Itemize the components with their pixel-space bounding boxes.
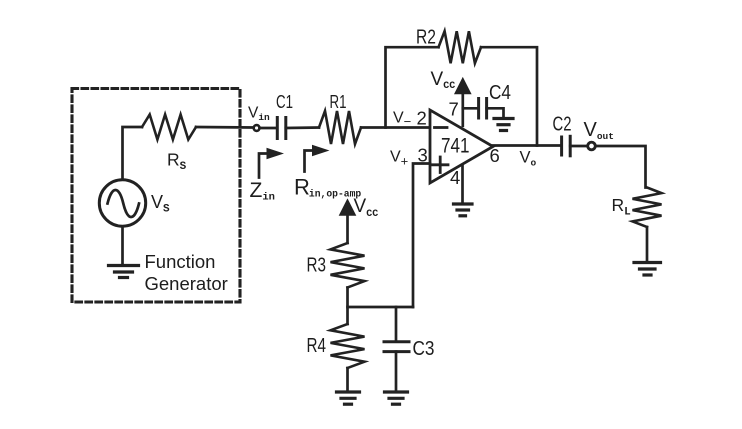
- impedance arrow Rin,op-amp: [305, 145, 330, 172]
- inverting input marker: [435, 126, 448, 129]
- wire: [463, 107, 477, 110]
- impedance arrow Zin: [259, 148, 284, 178]
- svg-text:Zin: Zin: [250, 179, 275, 204]
- svg-text:R1: R1: [330, 92, 347, 112]
- wire: [413, 164, 430, 308]
- svg-text:Vo: Vo: [520, 149, 537, 169]
- wire: [123, 127, 143, 179]
- svg-text:Generator: Generator: [145, 273, 228, 294]
- capacitor C4: [479, 99, 487, 119]
- wire: [260, 127, 277, 130]
- svg-text:Rin,op-amp: Rin,op-amp: [294, 175, 361, 200]
- wire: [386, 47, 439, 127]
- wire: [286, 126, 319, 129]
- svg-text:4: 4: [450, 167, 460, 188]
- resistor R1: [319, 111, 361, 144]
- power VCC arrow: [455, 79, 470, 94]
- pin 4 wire: [461, 165, 464, 203]
- pin 7 wire: [461, 92, 464, 126]
- resistor RL: [633, 188, 662, 228]
- wire: [481, 47, 537, 145]
- wire: [395, 352, 398, 391]
- node Vout: [588, 142, 596, 150]
- svg-text:C2: C2: [553, 114, 572, 136]
- svg-text:VCC: VCC: [431, 69, 456, 92]
- capacitor C2: [562, 136, 571, 156]
- wire: [570, 146, 645, 188]
- svg-text:R2: R2: [416, 27, 436, 49]
- ground: [634, 263, 661, 276]
- node Vin: [254, 125, 260, 131]
- wire: [346, 288, 349, 325]
- function generator enclosure: [72, 89, 240, 303]
- capacitor C1: [277, 118, 286, 139]
- wire: [395, 307, 398, 341]
- svg-text:C3: C3: [413, 338, 435, 360]
- svg-text:3: 3: [418, 145, 428, 166]
- power VCC arrow (bias): [340, 200, 355, 215]
- resistor R4: [331, 324, 365, 368]
- svg-text:Function: Function: [145, 251, 216, 272]
- wire: [361, 126, 430, 129]
- wire: [346, 368, 349, 391]
- ground: [385, 392, 408, 404]
- svg-text:6: 6: [490, 145, 500, 166]
- capacitor C3: [384, 342, 409, 352]
- svg-text:V+: V+: [390, 149, 408, 169]
- ground: [109, 227, 139, 278]
- wire: [196, 126, 252, 129]
- svg-text:2: 2: [417, 108, 427, 129]
- svg-text:Vout: Vout: [584, 119, 614, 142]
- svg-text:RL: RL: [612, 195, 632, 219]
- svg-text:C4: C4: [489, 82, 511, 104]
- ground: [454, 204, 473, 216]
- svg-text:7: 7: [449, 99, 459, 120]
- wire: [487, 108, 504, 117]
- output wire: [493, 144, 560, 147]
- svg-text:R3: R3: [307, 255, 327, 277]
- svg-text:R4: R4: [307, 335, 327, 357]
- wire: [346, 214, 349, 243]
- resistor RS: [142, 115, 196, 140]
- wire: [646, 227, 649, 262]
- svg-text:V−: V−: [393, 110, 411, 130]
- svg-text:Vin: Vin: [248, 105, 270, 124]
- ground: [337, 392, 360, 404]
- svg-text:RS: RS: [167, 150, 187, 174]
- svg-text:VS: VS: [151, 192, 170, 216]
- wire: [348, 306, 414, 309]
- resistor R3: [331, 243, 365, 288]
- voltage source VS: [99, 180, 145, 226]
- svg-text:741: 741: [441, 135, 470, 158]
- non-inverting input marker: [433, 157, 449, 173]
- ground: [494, 119, 513, 131]
- resistor R2: [439, 31, 482, 63]
- op-amp U1 741: [430, 110, 493, 183]
- svg-text:C1: C1: [276, 92, 293, 112]
- svg-text:VCC: VCC: [354, 196, 379, 220]
